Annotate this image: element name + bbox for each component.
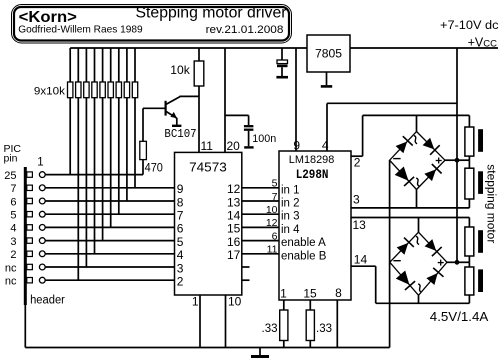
- header pin square row 6: [27, 238, 33, 243]
- svg-text:2: 2: [10, 249, 16, 261]
- svg-text:7805: 7805: [315, 49, 342, 61]
- svg-text:1: 1: [192, 295, 199, 309]
- wire L298N pin 13 to bridge B: [351, 217, 469, 219]
- svg-text:7: 7: [10, 183, 16, 195]
- svg-text:pin: pin: [4, 153, 18, 165]
- svg-text:Godfried-Willem Raes 1989: Godfried-Willem Raes 1989: [18, 23, 143, 35]
- resistor .33 second: [309, 300, 311, 310]
- header pin square row 7: [27, 251, 33, 256]
- wire +V to L298N pin 9: [295, 48, 297, 151]
- svg-text:Stepping motor driver: Stepping motor driver: [136, 5, 287, 22]
- ground for 100n: [244, 146, 253, 148]
- svg-text:+7-10V dc: +7-10V dc: [440, 18, 499, 32]
- 74573 pin 1 wire to ground: [199, 295, 201, 348]
- svg-text:2: 2: [354, 156, 361, 170]
- motor winding 3: [468, 218, 470, 228]
- svg-text:100n: 100n: [252, 133, 276, 145]
- resistor pack 9x10k element 1 with bus wire: [69, 48, 71, 82]
- wire 74573 pin 15 to L298N pin 12: [242, 226, 279, 228]
- resistor pack 9x10k element 2 with bus wire: [77, 48, 79, 82]
- svg-text:1: 1: [280, 287, 287, 301]
- title block border: [12, 5, 292, 44]
- resistor pack 9x10k element 4 with bus wire: [94, 48, 96, 82]
- capacitor C1 input electrolytic: [281, 48, 283, 60]
- svg-text:12: 12: [227, 182, 241, 196]
- svg-text:9: 9: [177, 182, 184, 196]
- capacitor 100n: [225, 114, 249, 116]
- ground for 7805: [326, 72, 328, 85]
- wire +Vcc vertical to bridges: [456, 48, 458, 262]
- resistor 10k: [198, 48, 200, 61]
- wire 7805 output +Vcc rail: [350, 47, 498, 49]
- 74573 unused stub pin 19: [242, 279, 250, 281]
- header wire circle row 3: [39, 198, 45, 204]
- driver L298N: [279, 151, 351, 300]
- svg-text:1: 1: [37, 157, 43, 169]
- wire 74573 pin 12 to L298N pin 5: [242, 187, 279, 189]
- wire header row 9 to 74573: [45, 279, 174, 281]
- wire bridge minus rail to ground: [389, 160, 391, 347]
- svg-text:stepping motor: stepping motor: [485, 164, 497, 243]
- wire header row 5 to 74573: [45, 226, 174, 228]
- svg-text:LM18298: LM18298: [289, 154, 335, 166]
- ground symbol: [259, 348, 261, 356]
- svg-text:6: 6: [10, 196, 16, 208]
- svg-text:15: 15: [227, 222, 241, 236]
- wire header row 6 to 74573: [45, 240, 174, 242]
- svg-text:10: 10: [228, 295, 242, 309]
- bridge rectifier A body: [390, 132, 445, 190]
- svg-text:5: 5: [10, 210, 16, 222]
- header pin square row 3: [27, 198, 33, 203]
- svg-text:11: 11: [267, 244, 278, 256]
- bridge A diode left-bottom: [395, 167, 409, 181]
- wire 74573 pin 13 to L298N pin 7: [242, 200, 279, 202]
- svg-text:nc: nc: [5, 262, 17, 274]
- motor connector pin 2: [478, 171, 483, 194]
- motor winding 2: [468, 160, 470, 168]
- header wire circle row 9: [39, 277, 45, 283]
- wire L298N pin 4 to +Vcc: [326, 103, 328, 151]
- svg-text:9: 9: [293, 139, 300, 153]
- node bridge B plus junction: [455, 260, 460, 265]
- header wire circle row 1: [39, 172, 45, 178]
- motor winding 4: [468, 262, 470, 267]
- wire header row 1 to resistor 470: [45, 174, 143, 176]
- svg-text:6: 6: [272, 230, 278, 242]
- svg-text:.33: .33: [316, 323, 332, 335]
- wire bridge B bottom to L298N pin14 line: [418, 295, 420, 303]
- bridge rectifier B body: [390, 232, 447, 295]
- bridge B minus mark: [393, 260, 400, 262]
- bridge B plus mark: [438, 262, 444, 264]
- svg-text:10k: 10k: [170, 63, 190, 77]
- svg-text:8: 8: [335, 286, 342, 300]
- header pin square row 5: [27, 225, 33, 230]
- wire header row 8 to 74573: [45, 266, 174, 268]
- ground rail: [25, 347, 389, 349]
- svg-text:25: 25: [4, 170, 16, 182]
- resistor pack 9x10k element 7 with bus wire: [118, 48, 120, 82]
- header wire circle row 7: [39, 251, 45, 257]
- svg-text:12: 12: [266, 217, 278, 229]
- ground for C1: [276, 76, 288, 79]
- node winding 3-4 center tap: [457, 261, 469, 263]
- svg-text:6: 6: [177, 222, 184, 236]
- wire L298N pin 3 to bridge A: [351, 207, 469, 209]
- svg-text:in 4: in 4: [281, 224, 300, 236]
- svg-text:.33: .33: [262, 323, 278, 335]
- ground for BC107 emitter: [172, 125, 181, 127]
- header pin square row 2: [27, 185, 33, 190]
- wire bridge B top to L298N pin13 line: [418, 218, 420, 233]
- svg-text:10: 10: [266, 204, 278, 216]
- bridge A plus mark: [436, 160, 442, 162]
- svg-text:4: 4: [10, 223, 16, 235]
- svg-text:4: 4: [177, 248, 184, 262]
- resistor pack 9x10k element 6 with bus wire: [110, 48, 112, 82]
- svg-text:enable A: enable A: [281, 237, 326, 249]
- node winding 1-2 center tap: [457, 159, 469, 161]
- wire L298N pin 8 to ground: [336, 300, 338, 348]
- wire +V rail to 7805 input: [70, 47, 307, 49]
- svg-text:15: 15: [303, 287, 317, 301]
- bridge A diode left-top: [396, 142, 408, 154]
- wire 74573 pin 17 to L298N pin 11: [242, 253, 279, 255]
- header connector bar: [24, 167, 27, 305]
- svg-text:11: 11: [201, 139, 214, 153]
- header pin square row 8: [27, 264, 33, 269]
- wire header row 7 to 74573: [45, 253, 174, 255]
- resistor 470: [142, 108, 144, 141]
- svg-text:470: 470: [145, 162, 163, 174]
- svg-text:9x10k: 9x10k: [34, 85, 66, 97]
- header wire circle row 6: [39, 238, 45, 244]
- bridge B diode top-right: [425, 239, 437, 251]
- bridge A diode bottom-right: [424, 169, 436, 181]
- svg-text:in 1: in 1: [281, 184, 300, 196]
- resistor pack 9x10k element 3 with bus wire: [85, 48, 87, 82]
- svg-text:in 2: in 2: [281, 198, 300, 210]
- bridge A minus mark: [393, 158, 400, 160]
- node bridge A plus junction: [455, 158, 460, 163]
- svg-text:nc: nc: [5, 276, 17, 288]
- wire header row 2 to 74573: [45, 187, 174, 189]
- svg-text:14: 14: [354, 253, 368, 267]
- wire bridge A top to L298N pin2 line: [416, 115, 418, 131]
- bridge B AC mark bottom: [418, 284, 421, 292]
- svg-text:3: 3: [177, 261, 184, 275]
- wire header row 3 to 74573: [45, 200, 174, 202]
- wire bridge B plus to +Vcc: [447, 261, 457, 263]
- header wire circle row 4: [39, 211, 45, 217]
- svg-text:2: 2: [177, 275, 184, 289]
- transistor BC107: [165, 101, 167, 116]
- header wire circle row 5: [39, 225, 45, 231]
- resistor pack 9x10k element 5 with bus wire: [102, 48, 104, 82]
- svg-text:13: 13: [353, 218, 367, 232]
- header wire circle row 8: [39, 264, 45, 270]
- header pin square row 4: [27, 212, 33, 217]
- wire header to ground rail: [24, 305, 26, 348]
- svg-text:+VCC: +VCC: [468, 36, 498, 50]
- bridge B AC mark top: [416, 236, 419, 244]
- wire bridge A plus to +Vcc: [445, 159, 457, 161]
- svg-text:BC107: BC107: [164, 127, 196, 141]
- motor connector pin 3: [478, 230, 483, 253]
- svg-text:3: 3: [353, 193, 360, 207]
- motor connector pin 1: [478, 129, 483, 152]
- svg-text:5: 5: [177, 235, 184, 249]
- svg-text:16: 16: [227, 235, 241, 249]
- svg-text:5: 5: [272, 178, 278, 190]
- wire Vcc to 74573 pin 20: [224, 48, 226, 152]
- svg-text:enable B: enable B: [281, 250, 327, 262]
- 74573 pin 10 wire to ground: [225, 295, 227, 348]
- wire 74573 pin 14 to L298N pin 10: [242, 213, 279, 215]
- 74573 unused stub pin 18: [242, 266, 250, 268]
- latch 74573: [175, 152, 242, 295]
- svg-text:74573: 74573: [189, 160, 227, 175]
- svg-text:7: 7: [272, 191, 278, 203]
- svg-text:7: 7: [177, 209, 184, 223]
- svg-text:rev.21.01.2008: rev.21.01.2008: [206, 24, 284, 36]
- bridge A AC mark bottom: [416, 178, 419, 186]
- svg-text:4.5V/1.4A: 4.5V/1.4A: [430, 309, 489, 324]
- motor connector pin 4: [478, 269, 483, 292]
- wire 10k to 74573 pin11: [198, 86, 200, 152]
- regulator 7805: [307, 35, 350, 72]
- svg-text:8: 8: [177, 195, 184, 209]
- svg-text:in 3: in 3: [281, 211, 300, 223]
- bridge A AC mark top: [414, 136, 417, 144]
- bridge B diode left-top: [397, 243, 409, 255]
- bridge A diode top-right: [423, 138, 435, 150]
- bridge B diode bottom-right: [426, 273, 437, 285]
- svg-text:13: 13: [227, 195, 241, 209]
- motor winding 1: [468, 115, 470, 127]
- svg-text:3: 3: [10, 236, 16, 248]
- wire L298N pin 2 to bridge A: [351, 155, 363, 157]
- svg-text:header: header: [30, 295, 65, 307]
- svg-text:L298N: L298N: [296, 168, 329, 182]
- resistor .33 first: [283, 300, 285, 310]
- wire header row 4 to 74573: [45, 213, 174, 215]
- wire L298N pin 14 to bridge B: [351, 265, 376, 267]
- header pin square row 9: [27, 278, 33, 283]
- header pin square row 1: [27, 172, 33, 177]
- resistor pack 9x10k element 9 with bus wire: [134, 48, 136, 82]
- svg-text:17: 17: [227, 248, 241, 262]
- wire bridge A bottom to L298N pin3 line: [416, 190, 418, 208]
- header wire circle row 2: [39, 185, 45, 191]
- wire 74573 pin 16 to L298N pin 6: [242, 240, 279, 242]
- bridge B diode left-bottom: [396, 271, 410, 285]
- resistor pack 9x10k element 8 with bus wire: [126, 48, 128, 82]
- svg-text:20: 20: [227, 139, 241, 153]
- svg-text:14: 14: [227, 209, 241, 223]
